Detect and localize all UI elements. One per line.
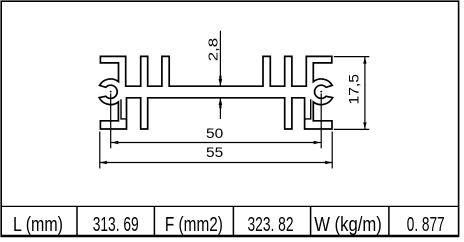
dimension 2,8 leader lines — [219, 31, 221, 119]
dimension 50 left arrowhead — [111, 141, 118, 144]
dimension 17,5 top arrowhead — [363, 57, 366, 64]
dimension 50 line — [111, 142, 320, 144]
dimension 55 left arrowhead — [100, 161, 107, 164]
dimension 50 right arrowhead — [314, 141, 321, 144]
svg-text:W (kg/m): W (kg/m) — [314, 214, 382, 236]
right boss center mark — [320, 91, 322, 93]
table bottom border — [1, 235, 460, 238]
left boss center line — [110, 93, 112, 148]
left boss center mark — [110, 91, 112, 93]
dimension 55 extension lines — [100, 132, 332, 169]
left screw-boss pedestal step — [121, 99, 127, 119]
dimension 55 line — [100, 162, 332, 164]
svg-text:17,5: 17,5 — [345, 74, 361, 105]
svg-text:323. 82: 323. 82 — [248, 214, 294, 236]
svg-text:55: 55 — [206, 144, 223, 160]
dimension 17,5 extension and dimension lines — [334, 57, 370, 130]
table top border — [1, 205, 459, 207]
svg-text:0. 877: 0. 877 — [407, 214, 445, 236]
svg-text:2,8: 2,8 — [206, 38, 220, 62]
right screw-boss pedestal step — [305, 99, 311, 119]
dimension 17,5 bottom arrowhead — [363, 122, 366, 129]
right boss center line — [320, 93, 322, 148]
dimension 55 right arrowhead — [325, 161, 332, 164]
svg-text:F (mm2): F (mm2) — [165, 214, 223, 236]
svg-text:50: 50 — [206, 125, 223, 141]
dimension 2,8 lower arrowhead — [219, 98, 223, 105]
svg-text:L (mm): L (mm) — [13, 214, 63, 236]
dimension 2,8 upper arrowhead — [219, 79, 223, 86]
table column separators — [77, 206, 389, 236]
heatsink profile cross-section outline (base plate, fins, screw-boss jaws) — [99, 56, 332, 129]
svg-text:313. 69: 313. 69 — [93, 214, 139, 236]
